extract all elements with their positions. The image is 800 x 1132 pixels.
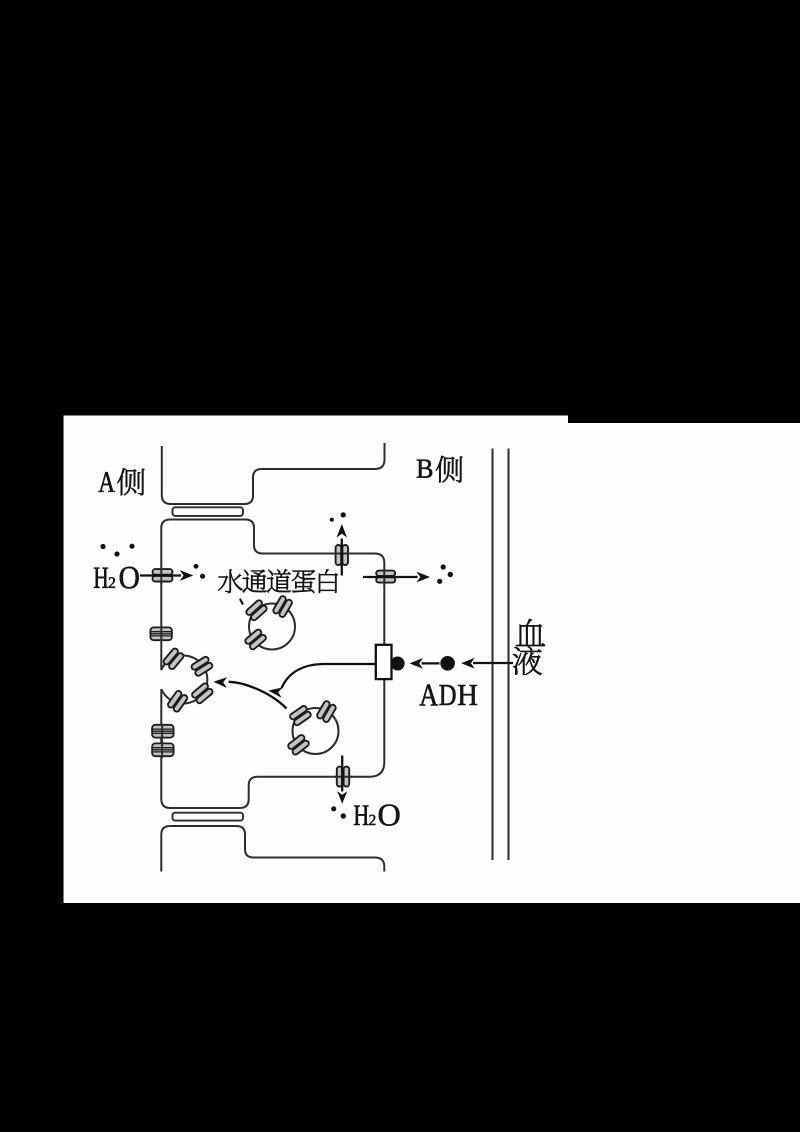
water dots below bottom channel [331, 806, 336, 811]
aquaporin channels on upper vesicle [245, 599, 268, 621]
membrane lines crossing channels (overlay) [161, 554, 384, 777]
curved arrow: vesicle moving to left membrane [229, 682, 287, 709]
central cell membrane outline (with vesicle-fusion gap on left) [161, 520, 384, 809]
water dots inside cell after entry [194, 564, 199, 569]
free ADH molecule [440, 656, 455, 671]
water dots on B side [441, 564, 446, 569]
lower cytoplasm vesicle circle [293, 708, 339, 754]
capillary wall double lines (blood vessel) [493, 449, 509, 861]
water molecule dots left of A-side H2O [100, 544, 105, 549]
arrow: water out through bottom channel [341, 756, 343, 792]
aquaporin channels on lower vesicle [289, 705, 312, 727]
aquaporin channel in bottom lateral membrane [337, 767, 349, 787]
upper cytoplasm vesicle circle [249, 604, 295, 650]
lower cell membrane outline [161, 826, 384, 872]
arrow: water out through upper lateral channel [341, 539, 343, 576]
stacked aquaporin pair on left membrane (upper) [150, 627, 172, 640]
curved arrow: signal from receptor to vesicle [282, 664, 376, 688]
arrow: water out through right membrane channel [363, 576, 418, 578]
arrow: ADH from blood [473, 662, 513, 664]
aquaporin channel in right basolateral membrane [376, 571, 395, 583]
omega vesicle fusing with left membrane [161, 656, 207, 704]
aquaporin channel in upper lateral membrane [336, 545, 348, 565]
aquaporin channels on omega vesicle [162, 647, 184, 670]
ADH molecule bound to receptor [391, 657, 405, 671]
label: blood (ye) [513, 646, 542, 675]
label A-side [99, 472, 115, 492]
stacked aquaporin pair on left membrane (middle) [152, 725, 174, 738]
aquaporin channel in left apical membrane (H2O entry) [153, 569, 173, 581]
label ADH [420, 685, 438, 706]
water dots above upper lateral channel [330, 518, 334, 522]
stacked aquaporin pair on left membrane (lower) [152, 743, 174, 756]
label B-side [417, 460, 432, 478]
label: water channel protein (shui tong dao dan bai) [218, 569, 242, 592]
arrow: H2O into cell through left channel [140, 574, 181, 576]
arrow: ADH moving to receptor [422, 662, 440, 664]
label H2O (bottom) [354, 805, 368, 825]
top tight junction bar [173, 507, 244, 516]
white diagram panel [64, 416, 800, 904]
bottom tight junction bar [173, 813, 244, 821]
label: blood (xue) [516, 619, 545, 646]
small tick near upper vesicle [240, 600, 242, 604]
label H2O (A side) [94, 568, 108, 588]
ADH receptor on basolateral membrane [376, 645, 392, 679]
upper cell membrane outline [162, 443, 385, 504]
